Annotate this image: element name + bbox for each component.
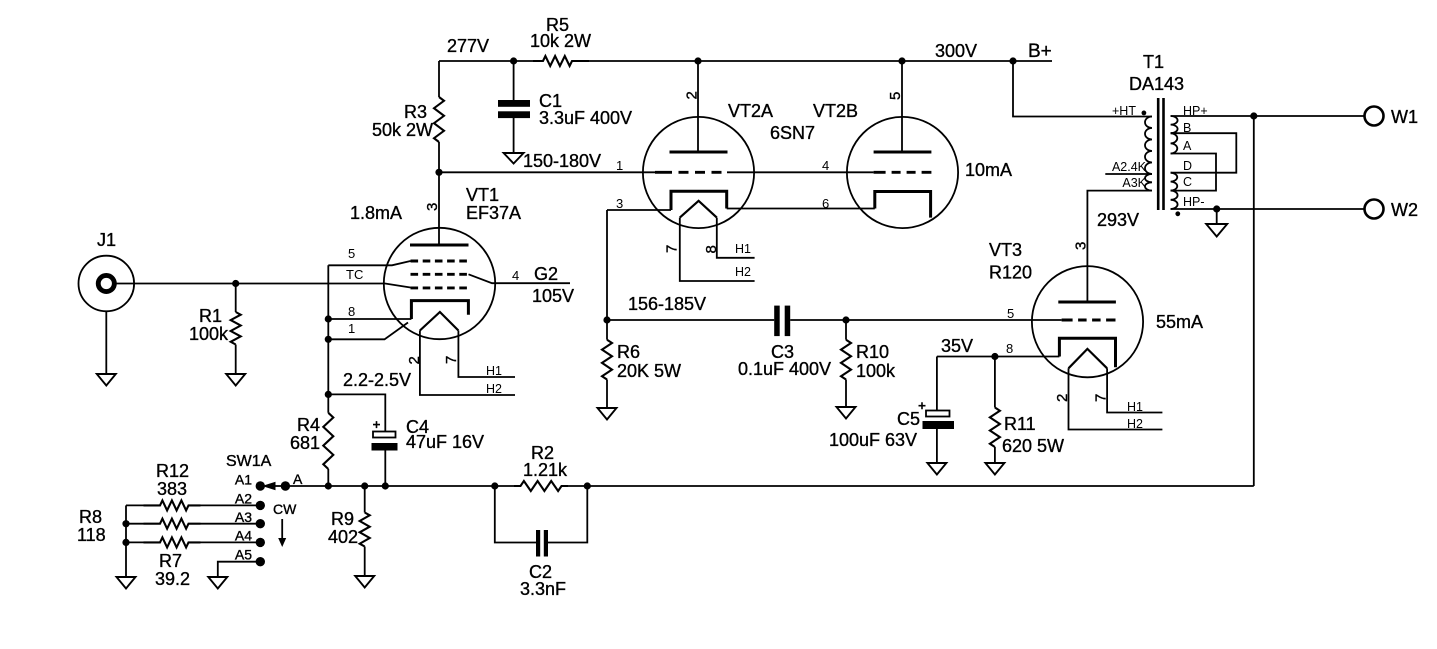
- svg-text:TC: TC: [346, 267, 363, 282]
- svg-text:1: 1: [616, 158, 623, 173]
- junction C4 bottom: [382, 482, 389, 489]
- svg-text:1.21k: 1.21k: [523, 460, 568, 480]
- junction R2 left: [491, 482, 498, 489]
- svg-text:35V: 35V: [941, 336, 973, 356]
- svg-text:R7: R7: [159, 551, 182, 571]
- svg-text:8: 8: [348, 304, 355, 319]
- VT2B grid row: [874, 171, 932, 174]
- tube VT2B envelope: [847, 117, 958, 228]
- svg-text:H2: H2: [1127, 417, 1143, 431]
- ground C5: [927, 463, 946, 475]
- VT1 heater pin 2 lead: [420, 331, 515, 396]
- svg-text:A: A: [1183, 139, 1192, 153]
- node A dot: [281, 481, 290, 490]
- VT2A heater pin 7 lead: [680, 218, 755, 281]
- wire VT1 g2 to pin 4 G2: [469, 274, 571, 283]
- transformer T1 secondary winding: [1171, 116, 1178, 133]
- primary phase dot: [1142, 111, 1147, 116]
- junction R11 top: [991, 353, 998, 360]
- label C4 plus: [373, 421, 380, 428]
- svg-text:50k 2W: 50k 2W: [372, 120, 433, 140]
- svg-text:D: D: [1183, 159, 1192, 173]
- junction VT2A plate: [694, 57, 701, 64]
- resistor R6: [606, 320, 608, 340]
- junction 2.2-2.5V: [325, 391, 332, 398]
- capacitor C3: [774, 306, 780, 337]
- VT3 heater filament: [1069, 349, 1108, 368]
- wire HP+ to W1: [1171, 115, 1365, 117]
- connector J1: [79, 256, 135, 312]
- tube VT2A envelope: [643, 117, 754, 228]
- svg-text:HP+: HP+: [1183, 104, 1208, 118]
- VT3 heater pin 2 lead: [1069, 368, 1163, 429]
- svg-text:7: 7: [664, 245, 681, 253]
- VT3 plate: [1058, 301, 1116, 304]
- svg-text:383: 383: [157, 479, 187, 499]
- svg-text:R120: R120: [989, 263, 1032, 283]
- wire pin 8 VT1: [328, 318, 411, 320]
- wire top B+ rail 277V-300V: [439, 60, 533, 62]
- wire J1 ground stem: [105, 311, 107, 374]
- VT1 grid g2 row: [411, 273, 469, 276]
- resistor R1: [235, 284, 237, 313]
- svg-text:R6: R6: [617, 342, 640, 362]
- svg-text:A5: A5: [235, 547, 252, 563]
- svg-text:C5: C5: [897, 409, 920, 429]
- tube VT3 envelope: [1032, 266, 1143, 377]
- label C5 plus: [919, 402, 926, 409]
- junction node 150-180V: [435, 169, 442, 176]
- svg-text:7: 7: [443, 356, 460, 364]
- VT1 heater filament: [420, 312, 459, 331]
- junction VT2B plate: [898, 57, 905, 64]
- svg-text:3: 3: [616, 196, 623, 211]
- ground HP-: [1206, 224, 1227, 237]
- wire input bus vertical: [327, 265, 329, 394]
- svg-text:B+: B+: [1028, 41, 1052, 62]
- ground R11: [985, 463, 1004, 475]
- wire A5 to ground: [218, 562, 256, 577]
- svg-text:620 5W: 620 5W: [1002, 436, 1064, 456]
- svg-text:1: 1: [348, 321, 355, 336]
- svg-text:6: 6: [822, 196, 829, 211]
- svg-text:100k: 100k: [189, 324, 229, 344]
- resistor R4: [327, 394, 329, 412]
- VT1 grid g3 row: [411, 286, 469, 289]
- svg-text:DA143: DA143: [1129, 74, 1184, 94]
- junction R8 left: [122, 520, 129, 527]
- wire pin 3 VT2A: [607, 209, 671, 211]
- svg-text:R8: R8: [79, 507, 102, 527]
- svg-text:SW1A: SW1A: [226, 453, 272, 470]
- svg-text:5: 5: [887, 92, 904, 100]
- svg-text:3.3uF 400V: 3.3uF 400V: [539, 108, 632, 128]
- svg-text:0.1uF 400V: 0.1uF 400V: [738, 359, 831, 379]
- resistor R2: [514, 481, 568, 491]
- VT1 plate: [410, 244, 469, 247]
- wire A3 row: [126, 523, 144, 525]
- svg-text:H1: H1: [1127, 400, 1143, 414]
- junction C3-R10: [842, 316, 849, 323]
- svg-text:277V: 277V: [447, 36, 489, 56]
- svg-text:R4: R4: [297, 415, 320, 435]
- tube VT1 envelope: [384, 228, 495, 339]
- svg-text:5: 5: [348, 246, 355, 261]
- ground A5: [208, 577, 227, 589]
- junction C1 top: [510, 57, 517, 64]
- secondary phase dot: [1175, 211, 1180, 216]
- VT2A heater pin 8 lead: [717, 218, 755, 258]
- resistor R9: [364, 486, 366, 513]
- junction pin8 bus: [325, 315, 332, 322]
- VT2A plate: [670, 151, 728, 154]
- switch contact A5: [256, 557, 265, 566]
- svg-text:39.2: 39.2: [155, 569, 190, 589]
- resistor R3: [434, 97, 444, 142]
- svg-text:R9: R9: [331, 509, 354, 529]
- wire B+ drop to transformer +HT: [1013, 61, 1152, 117]
- svg-text:10mA: 10mA: [965, 160, 1012, 180]
- junction pin1 bus: [325, 336, 332, 343]
- svg-text:VT1: VT1: [466, 185, 499, 205]
- svg-text:W1: W1: [1391, 107, 1418, 127]
- ground C1: [504, 153, 524, 164]
- svg-text:C: C: [1183, 175, 1192, 189]
- switch SW1A wiper arrow: [275, 485, 285, 487]
- wire VT2A cathode drop: [606, 210, 608, 320]
- VT2A heater filament: [680, 201, 717, 218]
- svg-text:HP-: HP-: [1183, 195, 1205, 209]
- wire pin 1 VT1: [328, 323, 408, 340]
- capacitor C4 electrolytic: [373, 432, 396, 438]
- VT3 grid row: [1062, 319, 1116, 322]
- svg-text:G2: G2: [534, 264, 558, 284]
- resistor R7: [144, 537, 201, 547]
- svg-text:118: 118: [77, 525, 106, 545]
- VT2A grid row: [655, 171, 727, 174]
- junction R4 bottom: [325, 482, 332, 489]
- ground R6: [598, 408, 617, 420]
- svg-text:B: B: [1183, 121, 1191, 135]
- junction B+: [1009, 57, 1016, 64]
- svg-text:A2: A2: [235, 491, 252, 507]
- ground J1: [97, 374, 116, 386]
- svg-text:A4: A4: [235, 528, 252, 544]
- svg-text:H1: H1: [735, 242, 751, 256]
- resistor R11: [994, 357, 996, 408]
- VT1 cathode: [411, 301, 468, 319]
- switch contact A1: [256, 481, 265, 490]
- wire riser to W1 node: [1253, 117, 1255, 487]
- svg-text:2.2-2.5V: 2.2-2.5V: [343, 370, 411, 390]
- VT2B plate lead pin 5: [901, 61, 903, 152]
- wire HP- to W2: [1171, 208, 1365, 210]
- VT2A cathode: [671, 191, 727, 210]
- wire A4 row: [126, 541, 144, 543]
- VT2B plate: [874, 151, 932, 154]
- VT2B cathode: [875, 192, 931, 218]
- svg-text:+HT: +HT: [1112, 104, 1136, 118]
- ground R1: [226, 374, 245, 386]
- svg-text:3.3nF: 3.3nF: [520, 579, 566, 599]
- svg-text:8: 8: [1006, 341, 1013, 356]
- VT1 plate lead pin 3: [438, 172, 440, 245]
- junction R9 top: [361, 482, 368, 489]
- transformer T1 primary winding: [1145, 117, 1152, 175]
- svg-text:300V: 300V: [935, 41, 977, 61]
- capacitor C2 loop wire: [495, 486, 588, 543]
- svg-text:1.8mA: 1.8mA: [350, 203, 402, 223]
- switch rotation arrow CW: [281, 519, 283, 539]
- capacitor C1: [513, 61, 515, 101]
- VT1 heater pin 7 lead: [458, 331, 515, 378]
- wire 35V node: [937, 356, 1060, 358]
- VT3 cathode: [1059, 338, 1115, 367]
- svg-text:H2: H2: [735, 265, 751, 279]
- svg-text:20K 5W: 20K 5W: [617, 361, 681, 381]
- wire node 150-180V to VT2A grid pin1: [439, 171, 662, 173]
- svg-text:A3: A3: [235, 509, 252, 525]
- resistor R5: [533, 56, 589, 66]
- svg-text:2: 2: [406, 356, 423, 364]
- VT3 heater pin 7 lead: [1107, 368, 1162, 412]
- svg-text:402: 402: [328, 527, 358, 547]
- wire HP- ground stem: [1216, 209, 1218, 224]
- svg-text:4: 4: [512, 268, 519, 283]
- svg-text:A: A: [293, 471, 303, 487]
- svg-text:EF37A: EF37A: [466, 203, 521, 223]
- label A2.4K tap: [1105, 173, 1152, 175]
- ground R10: [837, 407, 856, 419]
- svg-text:156-185V: 156-185V: [628, 294, 706, 314]
- svg-text:R3: R3: [404, 102, 427, 122]
- svg-text:7: 7: [1093, 394, 1110, 402]
- svg-text:47uF 16V: 47uF 16V: [406, 432, 484, 452]
- resistor R12: [144, 500, 201, 510]
- wire bottom feedback rail: [285, 485, 514, 487]
- svg-text:3: 3: [1073, 242, 1090, 250]
- svg-text:A3K: A3K: [1122, 176, 1146, 190]
- resistor R10: [845, 320, 847, 340]
- svg-text:VT2B: VT2B: [813, 101, 858, 121]
- wire J1 input to VT1 top cap TC: [115, 284, 411, 288]
- wire A2 row: [126, 504, 144, 506]
- junction R1 top: [232, 280, 239, 287]
- svg-text:293V: 293V: [1097, 210, 1139, 230]
- terminal W1: [1365, 107, 1384, 126]
- svg-text:55mA: 55mA: [1156, 312, 1203, 332]
- wire tap A to C: [1171, 154, 1216, 191]
- svg-text:R12: R12: [156, 461, 189, 481]
- svg-text:100k: 100k: [856, 361, 896, 381]
- switch contact A3: [256, 519, 265, 528]
- wire VT2A grid to VT2B grid pin4: [727, 171, 874, 173]
- svg-text:681: 681: [290, 433, 320, 453]
- VT1 grid g1 row: [411, 260, 469, 263]
- wire left bus R12-R8-R7: [125, 505, 127, 577]
- wire 156-185V rail: [607, 319, 774, 321]
- svg-text:2: 2: [684, 91, 701, 99]
- svg-text:T1: T1: [1143, 52, 1164, 72]
- ground left bus: [117, 577, 136, 589]
- wire node 2.2-2.5V: [328, 394, 385, 431]
- svg-text:A2.4K: A2.4K: [1112, 160, 1147, 174]
- junction HP- ground: [1213, 205, 1220, 212]
- svg-text:10k 2W: 10k 2W: [530, 31, 591, 51]
- switch contact A4: [256, 538, 265, 547]
- wire R3 branch upper: [438, 61, 440, 97]
- svg-text:H2: H2: [486, 382, 502, 396]
- svg-text:VT2A: VT2A: [728, 101, 773, 121]
- ground R9: [355, 576, 374, 588]
- svg-text:A1: A1: [235, 472, 252, 488]
- svg-text:150-180V: 150-180V: [523, 151, 601, 171]
- junction R7 left: [122, 539, 129, 546]
- junction 156-185V left: [603, 316, 610, 323]
- svg-text:8: 8: [703, 245, 720, 253]
- svg-text:H1: H1: [486, 364, 502, 378]
- svg-text:W2: W2: [1391, 200, 1418, 220]
- resistor R8: [144, 519, 201, 529]
- svg-text:R1: R1: [199, 306, 222, 326]
- wire pin 6 VT2A to VT2B: [727, 208, 875, 210]
- svg-text:CW: CW: [273, 501, 297, 517]
- VT2A plate lead pin 2: [697, 61, 699, 152]
- svg-text:6SN7: 6SN7: [770, 123, 815, 143]
- svg-text:J1: J1: [97, 230, 116, 250]
- capacitor C5 electrolytic: [936, 357, 938, 411]
- svg-text:R10: R10: [856, 342, 889, 362]
- switch contact A2: [256, 501, 265, 510]
- junction W1 riser: [1250, 112, 1257, 119]
- svg-text:100uF 63V: 100uF 63V: [829, 430, 917, 450]
- svg-text:VT3: VT3: [989, 240, 1022, 260]
- svg-text:2: 2: [1054, 394, 1071, 402]
- svg-text:5: 5: [1007, 306, 1014, 321]
- wire R3 lower: [438, 142, 440, 172]
- VT3 plate lead pin 3: [1087, 191, 1152, 302]
- svg-text:105V: 105V: [532, 286, 574, 306]
- svg-text:4: 4: [822, 158, 829, 173]
- wire tap B to D: [1171, 133, 1237, 173]
- terminal W2: [1365, 200, 1384, 219]
- junction R2 right: [584, 482, 591, 489]
- svg-text:R11: R11: [1004, 414, 1036, 434]
- wire pin 5 VT1: [328, 261, 410, 265]
- transformer T1 core: [1157, 98, 1160, 210]
